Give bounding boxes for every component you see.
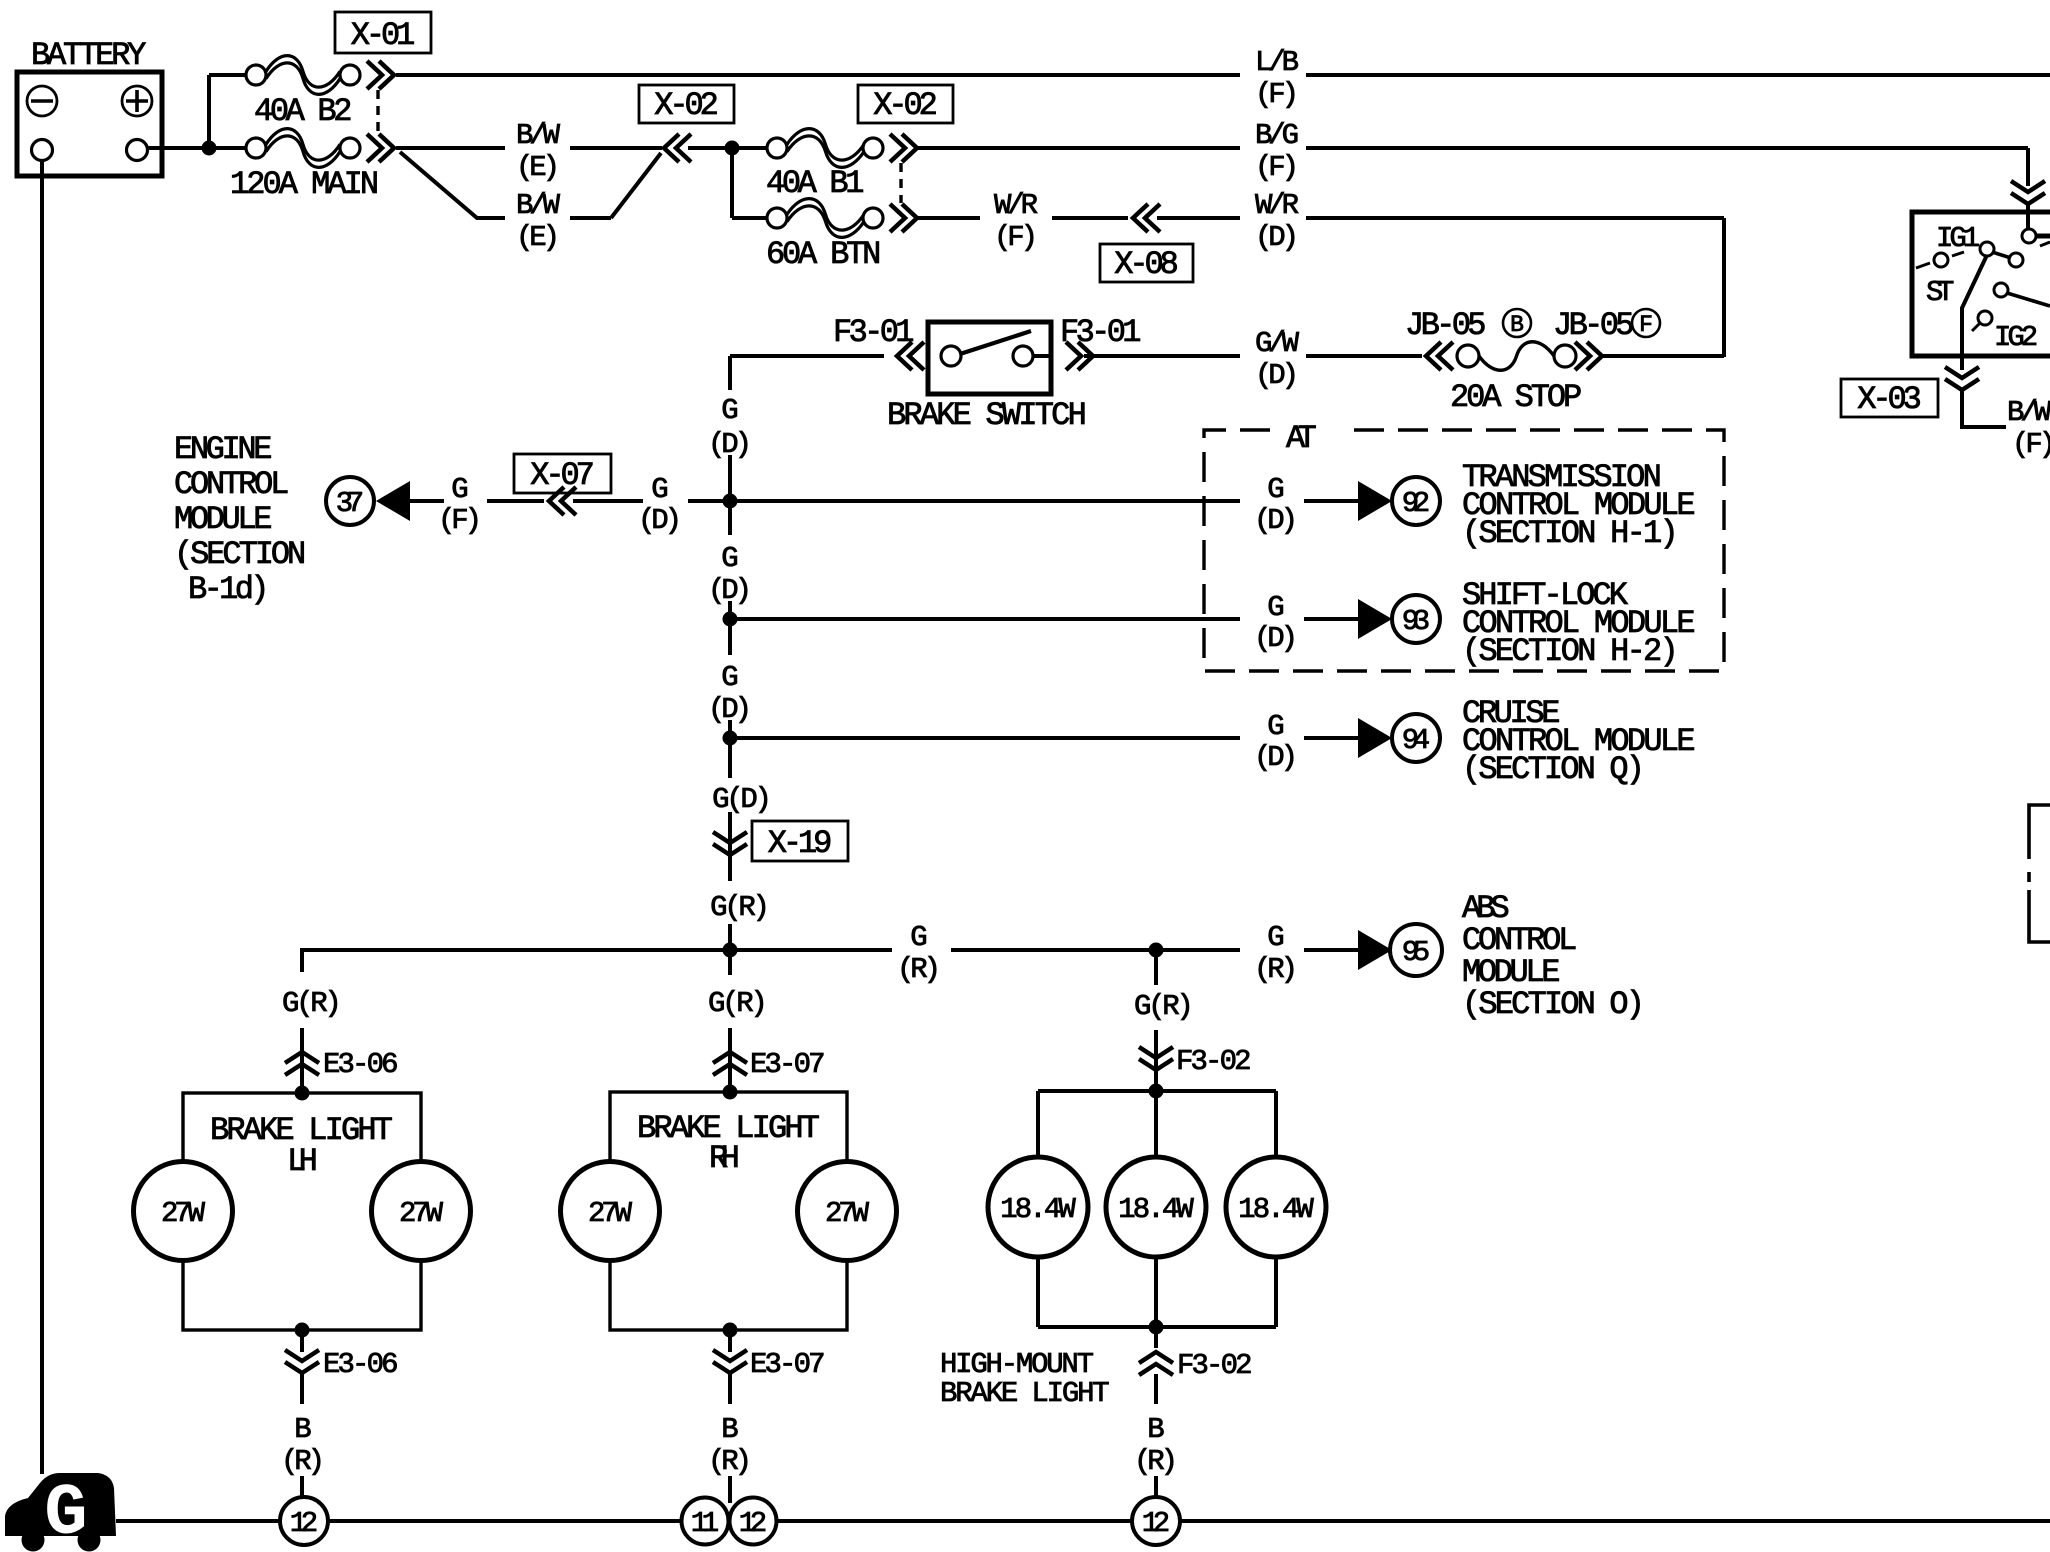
svg-text:G: G <box>651 473 668 506</box>
svg-text:F3-02: F3-02 <box>1177 1349 1253 1382</box>
svg-text:AT: AT <box>1286 420 1317 457</box>
arrow cruise <box>1358 718 1392 758</box>
svg-text:W/R: W/R <box>994 189 1038 222</box>
wire hm branch <box>1154 950 1158 985</box>
svg-text:F3-01: F3-01 <box>1060 314 1142 351</box>
svg-text:F3-01: F3-01 <box>833 314 915 351</box>
svg-text:20A STOP: 20A STOP <box>1450 379 1582 416</box>
connector X-02 in chevrons <box>664 134 691 162</box>
node trunk shift-lock <box>723 612 738 627</box>
wire hm to connector <box>1154 1030 1158 1091</box>
svg-text:40A B2: 40A B2 <box>254 93 352 130</box>
brake switch lever <box>960 331 1031 354</box>
wire stop fuse to W/R <box>1602 354 1724 358</box>
battery <box>17 72 162 176</box>
wire B/G (F) <box>917 146 1240 150</box>
wire lh branch <box>300 1028 304 1093</box>
svg-text:G(R): G(R) <box>282 987 342 1020</box>
svg-text:(F): (F) <box>438 504 482 537</box>
node trunk cruise <box>723 731 738 746</box>
fuse 40A B2 <box>246 65 266 85</box>
svg-text:(E): (E) <box>516 151 560 184</box>
svg-text:B/W: B/W <box>2007 396 2050 429</box>
svg-text:37: 37 <box>336 487 364 520</box>
svg-text:(R): (R) <box>1134 1445 1178 1478</box>
connector F3-02 top chevrons <box>1139 1047 1173 1070</box>
wire W/R (D) <box>1157 216 1240 220</box>
connector X-08 chevrons <box>1133 204 1160 232</box>
wire rh to B label <box>728 1374 732 1404</box>
ignition switch box <box>1912 212 2050 356</box>
bulb LH right 27W <box>372 1162 471 1261</box>
ignition link IG1-mid <box>1992 252 2011 258</box>
ignition link ACC diagonal <box>2007 293 2050 306</box>
connector X-01 label box <box>335 12 431 53</box>
svg-text:BRAKE LIGHT: BRAKE LIGHT <box>940 1377 1110 1410</box>
svg-text:G: G <box>721 542 738 575</box>
svg-text:27W: 27W <box>161 1197 206 1230</box>
ground circle 12 hm <box>1132 1497 1180 1545</box>
arrow to ECM <box>376 481 410 521</box>
wire X-07 to G (D) <box>573 499 643 503</box>
node lh box top <box>295 1086 310 1101</box>
svg-text:(SECTION O): (SECTION O) <box>1462 986 1645 1023</box>
pin 37 circle <box>326 477 374 525</box>
fuse 120A MAIN <box>246 138 266 158</box>
svg-text:B: B <box>721 1413 738 1446</box>
svg-text:G(R): G(R) <box>708 987 768 1020</box>
contact B <box>2022 229 2036 243</box>
svg-text:JB-05: JB-05 <box>1405 307 1487 344</box>
wire hm to ground <box>1154 1476 1158 1497</box>
wire G (F) to X-07 <box>487 499 544 503</box>
wire to abs arrow <box>1304 948 1358 952</box>
svg-text:X-02: X-02 <box>654 87 719 124</box>
svg-text:(D): (D) <box>1254 741 1298 774</box>
wire trunk to TCM <box>730 499 1240 503</box>
connector X-02 label box 2 <box>858 85 953 123</box>
svg-text:(D): (D) <box>1255 221 1299 254</box>
wire trunk <box>728 812 732 881</box>
wire inside brake switch <box>1033 354 1051 358</box>
arrow ABS <box>1358 930 1392 970</box>
svg-text:B/W: B/W <box>516 189 561 222</box>
svg-text:27W: 27W <box>399 1197 444 1230</box>
svg-text:RH: RH <box>709 1140 740 1177</box>
ground circle 11 <box>682 1498 729 1545</box>
wire B/W (E) upper <box>396 146 505 150</box>
svg-text:G/W: G/W <box>1255 327 1300 360</box>
svg-text:27W: 27W <box>588 1197 633 1230</box>
svg-text:(D): (D) <box>1254 622 1298 655</box>
connector E3-06 bottom chevrons <box>285 1350 319 1373</box>
bulb HM mid 18.4W <box>1106 1157 1206 1257</box>
pin 93 circle <box>1392 595 1440 643</box>
svg-text:(D): (D) <box>1254 504 1298 537</box>
svg-text:(F): (F) <box>1255 78 1299 111</box>
wire rh to ground <box>728 1476 732 1503</box>
svg-text:IG2: IG2 <box>1994 321 2038 354</box>
svg-text:ST: ST <box>1926 276 1954 309</box>
brake light RH box <box>610 1092 847 1330</box>
connector X-08 label box <box>1100 244 1193 282</box>
svg-text:92: 92 <box>1402 487 1430 520</box>
contact ST <box>1934 253 1948 267</box>
svg-text:F3-02: F3-02 <box>1176 1045 1252 1078</box>
svg-text:G(R): G(R) <box>1134 990 1194 1023</box>
connector E3-07 bottom chevrons <box>713 1350 747 1373</box>
high-mount bottom rail <box>1036 1257 1040 1327</box>
ground circle 12 lh <box>280 1497 328 1545</box>
node fuse feed <box>725 141 740 156</box>
contact IG2 <box>1978 311 1992 325</box>
wire rh to connector <box>728 1330 732 1352</box>
pin 95 circle <box>1390 924 1442 976</box>
svg-text:E3-07: E3-07 <box>750 1348 826 1381</box>
svg-text:MODULE: MODULE <box>174 501 272 538</box>
node battery feed <box>202 141 217 156</box>
partial module box right <box>2029 805 2050 942</box>
svg-text:12: 12 <box>290 1507 318 1540</box>
wire to TCM arrow <box>1304 499 1358 503</box>
svg-text:LH: LH <box>287 1143 318 1180</box>
arrow shift-lock <box>1358 599 1392 639</box>
connector F3-01 left chevrons <box>897 342 924 370</box>
bulb HM right 18.4W <box>1226 1157 1326 1257</box>
wire trunk elbow to brake switch <box>730 354 884 358</box>
svg-text:CONTROL: CONTROL <box>174 466 289 503</box>
svg-text:(D): (D) <box>1255 359 1299 392</box>
battery lower-right terminal <box>127 140 148 161</box>
svg-text:(SECTION H-2): (SECTION H-2) <box>1462 633 1679 670</box>
svg-text:G: G <box>1267 473 1284 506</box>
svg-text:X-03: X-03 <box>1857 381 1922 418</box>
wire hm to B label <box>1154 1374 1158 1404</box>
connector X-02 label box 1 <box>639 85 734 123</box>
svg-text:(D): (D) <box>638 504 682 537</box>
wire node down to 60A BTN <box>730 148 734 218</box>
svg-text:JB-05: JB-05 <box>1553 307 1635 344</box>
connector X-01 dashes <box>376 90 379 134</box>
node abs trunk <box>723 943 738 958</box>
node rh box bottom <box>723 1323 738 1338</box>
wire trunk <box>728 455 732 535</box>
high-mount top rail <box>1038 1089 1276 1093</box>
svg-text:L/B: L/B <box>1255 46 1299 79</box>
svg-text:B: B <box>294 1413 311 1446</box>
brake switch contact left <box>941 346 961 366</box>
wire battery negative to ground bus <box>40 160 44 1474</box>
bulb RH right 27W <box>798 1162 897 1261</box>
pin 94 circle <box>1392 714 1440 762</box>
wire lh to connector <box>300 1330 304 1352</box>
wire G/W (D) <box>1084 354 1240 358</box>
ignition link B right <box>2036 234 2050 239</box>
svg-text:(F): (F) <box>1255 151 1299 184</box>
svg-text:G: G <box>1267 710 1284 743</box>
svg-text:X-02: X-02 <box>873 87 938 124</box>
svg-text:(E): (E) <box>516 221 560 254</box>
wire trunk to shift-lock <box>730 617 1240 621</box>
wire ignition to B/W (F) <box>1962 390 2006 427</box>
svg-text:60A BTN: 60A BTN <box>766 236 881 273</box>
connector X-02 chevrons upper <box>890 134 917 162</box>
wire trunk to cruise <box>730 736 1240 740</box>
node rh box top <box>723 1085 738 1100</box>
node lh box bottom <box>295 1323 310 1338</box>
connector F3-01 right chevrons <box>1066 342 1093 370</box>
svg-text:G: G <box>451 473 468 506</box>
svg-text:40A B1: 40A B1 <box>766 165 864 202</box>
contact ACC <box>1994 283 2008 297</box>
svg-text:(R): (R) <box>1254 953 1298 986</box>
svg-text:X-08: X-08 <box>1114 246 1179 283</box>
bulb HM left 18.4W <box>988 1157 1088 1257</box>
svg-text:93: 93 <box>1402 605 1430 638</box>
svg-text:G: G <box>721 661 738 694</box>
svg-text:B-1d): B-1d) <box>188 571 270 608</box>
svg-text:(F): (F) <box>2012 428 2050 461</box>
node hm top <box>1149 1084 1164 1099</box>
wire to shift arrow <box>1304 617 1358 621</box>
battery positive terminal <box>122 86 152 116</box>
svg-text:G: G <box>1267 921 1284 954</box>
connector E3-06 top chevrons <box>285 1052 319 1075</box>
wire B/W (E) lower diagonal <box>400 152 505 218</box>
wire hm mid legs <box>1154 1091 1158 1160</box>
connector X-02 dashes <box>899 163 902 203</box>
svg-text:18.4W: 18.4W <box>1238 1193 1314 1226</box>
fuse 20A STOP <box>1457 345 1479 367</box>
svg-text:B: B <box>1510 312 1524 338</box>
svg-text:B/G: B/G <box>1255 119 1299 152</box>
svg-text:X-07: X-07 <box>530 457 595 494</box>
svg-text:E3-06: E3-06 <box>323 1048 399 1081</box>
pin 92 circle <box>1392 477 1440 525</box>
svg-text:(F): (F) <box>994 221 1038 254</box>
connector E3-07 top chevrons <box>713 1052 747 1075</box>
svg-text:X-19: X-19 <box>768 825 833 862</box>
connector X-03 chevrons <box>1945 367 1979 390</box>
svg-text:G(R): G(R) <box>710 891 770 924</box>
wire into ignition box <box>2026 204 2030 230</box>
fuse 40A B1 <box>767 138 787 158</box>
AT dashed box <box>1204 430 1724 671</box>
svg-text:94: 94 <box>1402 724 1430 757</box>
svg-text:E3-07: E3-07 <box>750 1048 826 1081</box>
svg-text:11: 11 <box>691 1507 719 1540</box>
svg-text:B: B <box>1147 1413 1164 1446</box>
wire W/R down to stop fuse line <box>1722 218 1726 357</box>
wire battery positive <box>148 146 247 150</box>
svg-text:X-01: X-01 <box>351 17 416 54</box>
battery negative terminal <box>27 86 57 116</box>
connector F3-02 bottom chevrons <box>1139 1352 1173 1375</box>
svg-text:G(D): G(D) <box>712 783 772 816</box>
svg-text:G: G <box>44 1473 87 1552</box>
svg-text:ENGINE: ENGINE <box>174 431 272 468</box>
wire G (D) to trunk <box>688 499 730 503</box>
svg-text:(SECTION: (SECTION <box>174 536 306 573</box>
ground circle 12 rh <box>730 1498 777 1545</box>
svg-text:95: 95 <box>1402 936 1430 969</box>
ignition IG2 tail <box>1972 323 1980 331</box>
ignition rotor wire <box>1962 255 1987 370</box>
arrow TCM <box>1358 481 1392 521</box>
battery lower-left terminal <box>32 140 53 161</box>
svg-text:(R): (R) <box>281 1445 325 1478</box>
wire lh to B label <box>300 1374 304 1404</box>
wire arrow to G (F) <box>410 499 444 503</box>
node trunk TCM <box>723 494 738 509</box>
wire hm to connector bottom <box>1154 1327 1158 1348</box>
brake switch contact right <box>1013 346 1033 366</box>
svg-text:27W: 27W <box>825 1197 870 1230</box>
wire trunk <box>728 601 732 655</box>
svg-text:18.4W: 18.4W <box>1118 1193 1194 1226</box>
contact mid <box>2009 253 2023 267</box>
wire W/R (F) <box>917 216 980 220</box>
connector JB-05 B chevrons <box>1426 342 1453 370</box>
connector X-02 chevrons lower <box>890 204 917 232</box>
ignition dashes <box>1916 242 2050 268</box>
connector X-02 out chevrons <box>367 134 394 162</box>
svg-text:G: G <box>910 921 927 954</box>
svg-text:(R): (R) <box>708 1445 752 1478</box>
wire to cruise arrow <box>1304 736 1358 740</box>
ground car symbol <box>5 1473 116 1536</box>
svg-text:E3-06: E3-06 <box>323 1348 399 1381</box>
svg-text:(SECTION H-1): (SECTION H-1) <box>1462 515 1679 552</box>
svg-text:BRAKE SWITCH: BRAKE SWITCH <box>887 397 1087 434</box>
wire lh to ground <box>300 1476 304 1497</box>
wire to fuse node <box>688 146 768 150</box>
svg-text:(SECTION Q): (SECTION Q) <box>1462 751 1645 788</box>
contact IG1 <box>1980 242 1994 256</box>
connector JB-05 F chevrons <box>1575 342 1602 370</box>
connector ignition chevrons <box>2011 181 2045 204</box>
svg-text:F: F <box>1639 312 1653 338</box>
svg-text:12: 12 <box>1142 1507 1170 1540</box>
connector X-03 label box <box>1841 379 1938 417</box>
wire trunk top <box>728 356 732 390</box>
svg-text:B/W: B/W <box>516 119 561 152</box>
svg-text:18.4W: 18.4W <box>1000 1193 1076 1226</box>
wire abs row left <box>302 950 892 972</box>
brake switch box <box>928 322 1051 394</box>
svg-text:12: 12 <box>739 1507 767 1540</box>
wire trunk <box>728 924 732 950</box>
wire abs row mid <box>951 948 1240 952</box>
connector X-01 chevrons <box>367 61 394 89</box>
bulb LH left 27W <box>134 1162 233 1261</box>
wire rh branch <box>728 950 732 975</box>
connector X-19 label box <box>752 821 848 861</box>
wire trunk <box>728 720 732 778</box>
wire to fuse 40A B2 <box>207 75 211 148</box>
svg-text:BATTERY: BATTERY <box>31 37 146 74</box>
connector X-19 chevrons <box>713 832 747 855</box>
connector X-07 chevrons <box>549 487 576 515</box>
svg-text:G: G <box>721 394 738 427</box>
ground bus <box>116 1519 280 1523</box>
wire B/G down to ignition switch <box>2026 148 2030 186</box>
svg-text:120A MAIN: 120A MAIN <box>230 166 379 203</box>
bulb RH left 27W <box>561 1162 660 1261</box>
svg-text:IG1: IG1 <box>1936 222 1980 255</box>
svg-text:(R): (R) <box>897 953 941 986</box>
fuse 60A BTN <box>767 208 787 228</box>
svg-text:G: G <box>1267 591 1284 624</box>
svg-text:W/R: W/R <box>1255 189 1299 222</box>
connector X-07 label box <box>514 454 611 493</box>
brake light LH box <box>183 1093 421 1330</box>
wire L/B to right edge <box>396 73 1240 77</box>
node hm bottom <box>1149 1320 1164 1335</box>
node abs f3-02 <box>1149 943 1164 958</box>
